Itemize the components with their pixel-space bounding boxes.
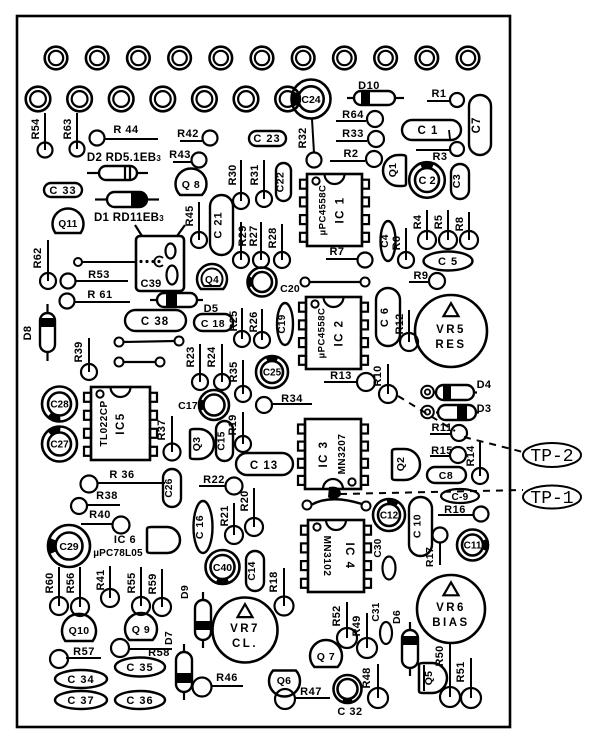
- svg-text:C7: C7: [471, 117, 483, 134]
- svg-text:C 32: C 32: [337, 706, 362, 718]
- svg-text:R12: R12: [394, 313, 406, 334]
- svg-text:MN3102: MN3102: [321, 536, 332, 577]
- svg-text:C 34: C 34: [67, 674, 94, 686]
- svg-text:Q4: Q4: [205, 275, 219, 286]
- capacitor C3: [451, 164, 469, 199]
- resistor R10: [372, 364, 397, 403]
- resistor R54: [30, 113, 53, 158]
- capacitor C34: [55, 670, 107, 688]
- svg-text:R24: R24: [206, 346, 218, 368]
- transistor Q3: [190, 429, 214, 459]
- svg-text:IC 4: IC 4: [343, 542, 355, 569]
- resistor R7: [326, 246, 373, 268]
- capacitor C14: [246, 551, 264, 591]
- capacitor C4: [380, 221, 396, 261]
- pad row top (11 plated holes): [45, 47, 480, 70]
- capacitor C29: [48, 525, 90, 567]
- svg-text:R9: R9: [413, 270, 428, 282]
- transistor Q7: [310, 640, 342, 667]
- diode D9: [179, 585, 211, 648]
- capacitor C7: [469, 95, 491, 155]
- capacitor C40: [206, 550, 240, 584]
- svg-text:C 1: C 1: [418, 125, 439, 137]
- svg-text:C17: C17: [178, 400, 198, 412]
- svg-text:R 36: R 36: [109, 469, 134, 481]
- resistor R5: [433, 210, 457, 249]
- wire left pair lower: [115, 358, 165, 367]
- svg-text:C39: C39: [140, 278, 161, 290]
- resistor R23: [185, 344, 208, 390]
- transistor Q5: [419, 663, 447, 693]
- svg-text:C 13: C 13: [250, 460, 278, 472]
- wire under IC3: [303, 499, 371, 510]
- capacitor C6: [376, 288, 400, 346]
- clock IC4 MN3102: [301, 520, 371, 592]
- diode D3: [421, 403, 491, 420]
- svg-text:D1 RD11EB3: D1 RD11EB3: [94, 212, 164, 224]
- svg-text:R49: R49: [351, 615, 363, 636]
- svg-text:R32: R32: [297, 127, 309, 148]
- svg-text:C 35: C 35: [126, 662, 153, 674]
- svg-text:R17: R17: [424, 547, 436, 567]
- resistor R17: [424, 528, 448, 568]
- svg-text:BIAS: BIAS: [432, 617, 469, 629]
- svg-text:D2 RD5.1EB3: D2 RD5.1EB3: [87, 152, 161, 164]
- diode D2 RD5.1EB3: [87, 152, 161, 180]
- svg-text:Q11: Q11: [58, 219, 77, 230]
- svg-text:C30: C30: [373, 538, 384, 557]
- resistor R8: [454, 212, 478, 249]
- resistor R32: [297, 119, 322, 168]
- wire to C39: [74, 258, 136, 266]
- capacitor C38: [125, 310, 186, 331]
- svg-text:C 18: C 18: [201, 318, 225, 330]
- resistor R60: [44, 567, 68, 615]
- svg-text:R30: R30: [227, 164, 239, 185]
- svg-text:Q2: Q2: [395, 457, 407, 472]
- svg-text:R25: R25: [228, 310, 240, 331]
- resistor R45: [184, 202, 207, 248]
- wire left pair upper: [115, 337, 184, 347]
- svg-text:C 21: C 21: [213, 211, 225, 238]
- svg-text:IC 3: IC 3: [318, 440, 330, 467]
- svg-text:VR6: VR6: [436, 602, 466, 614]
- resistor R9: [409, 270, 445, 289]
- svg-text:C31: C31: [371, 602, 382, 621]
- svg-text:R55: R55: [126, 572, 138, 593]
- resistor R58: [111, 639, 172, 659]
- svg-text:TP-1: TP-1: [530, 489, 573, 509]
- transistor Q8: [176, 168, 207, 195]
- svg-text:D8: D8: [22, 326, 34, 341]
- transistor Q1: [383, 155, 406, 186]
- svg-text:C19: C19: [277, 314, 288, 333]
- resistor R1: [427, 88, 464, 107]
- svg-text:R 61: R 61: [87, 289, 112, 301]
- capacitor C25: [256, 356, 288, 388]
- resistor R12: [394, 310, 418, 351]
- svg-text:C20: C20: [280, 283, 300, 295]
- resistor R35: [228, 360, 251, 402]
- trimmer capacitor C39: [135, 225, 185, 291]
- resistor R25: [228, 308, 250, 347]
- resistor R51: [455, 658, 481, 708]
- resistor R46: [193, 672, 244, 697]
- resistor R30: [227, 160, 249, 209]
- diode D1 RD11EB3: [94, 192, 164, 224]
- svg-text:R39: R39: [73, 341, 85, 362]
- svg-text:C 37: C 37: [67, 695, 94, 707]
- potentiometer VR5: [415, 295, 487, 367]
- svg-text:RES: RES: [435, 339, 466, 351]
- diode D6: [391, 610, 418, 676]
- diode D4: [421, 379, 492, 400]
- svg-text:R42: R42: [177, 128, 199, 140]
- capacitor C18: [194, 314, 233, 331]
- svg-text:C28: C28: [50, 400, 69, 411]
- resistor R64: [336, 109, 383, 127]
- resistor R15: [430, 445, 466, 463]
- svg-text:R62: R62: [32, 247, 44, 268]
- svg-text:µPC78L05: µPC78L05: [93, 548, 143, 559]
- svg-text:R3: R3: [432, 151, 447, 163]
- svg-text:R21: R21: [219, 505, 231, 526]
- capacitor C31: [371, 602, 392, 644]
- svg-text:R1: R1: [431, 88, 446, 100]
- svg-text:R45: R45: [184, 205, 196, 226]
- svg-text:IC 1: IC 1: [335, 196, 347, 223]
- capacitor C2: [409, 162, 445, 198]
- svg-text:R51: R51: [455, 661, 467, 682]
- svg-text:C15: C15: [217, 431, 228, 450]
- svg-text:R 44: R 44: [113, 124, 139, 136]
- svg-text:R7: R7: [329, 246, 344, 258]
- capacitor C37: [55, 691, 107, 709]
- svg-text:R43: R43: [169, 149, 191, 161]
- capacitor C13: [236, 453, 293, 475]
- svg-text:C24: C24: [301, 94, 320, 106]
- svg-text:VR5: VR5: [436, 324, 466, 336]
- resistor R4: [412, 210, 436, 249]
- resistor R18: [268, 568, 294, 616]
- resistor R44: [90, 124, 159, 146]
- pad row second (7 plated holes): [26, 87, 300, 112]
- IC3 notch blob: [328, 487, 341, 500]
- op-amp IC5 TL022CP: [84, 387, 157, 460]
- capacitor C30: [373, 538, 396, 579]
- test point TP-2 callout: [398, 396, 581, 467]
- svg-text:R53: R53: [88, 269, 110, 281]
- BBD IC3 MN3207: [298, 419, 368, 489]
- resistor R14: [465, 442, 488, 484]
- svg-text:R60: R60: [44, 572, 56, 593]
- svg-text:C 6: C 6: [379, 307, 391, 327]
- resistor R43: [169, 149, 206, 168]
- diode D7: [163, 631, 192, 700]
- resistor R41: [95, 566, 119, 607]
- resistor R62: [32, 240, 56, 289]
- capacitor C32: [334, 675, 362, 703]
- svg-text:R14: R14: [465, 445, 477, 467]
- svg-text:Q 7: Q 7: [317, 651, 335, 663]
- svg-text:C 16: C 16: [194, 515, 206, 539]
- svg-text:C 23: C 23: [253, 133, 280, 145]
- svg-text:C25: C25: [263, 368, 282, 379]
- svg-text:R23: R23: [185, 346, 197, 367]
- capacitor C5: [424, 252, 473, 271]
- resistor R39: [73, 338, 97, 380]
- svg-text:R22: R22: [203, 474, 225, 486]
- svg-text:R31: R31: [249, 164, 261, 185]
- resistor R2: [330, 148, 382, 167]
- resistor R55: [126, 567, 150, 615]
- resistor R3: [416, 142, 464, 163]
- transistor Q10: [62, 614, 96, 641]
- capacitor C-9: [441, 489, 479, 503]
- capacitor C19: [277, 303, 293, 345]
- resistor R61: [60, 289, 131, 309]
- svg-text:Q10: Q10: [69, 625, 90, 637]
- svg-text:CL.: CL.: [232, 638, 258, 650]
- svg-text:R41: R41: [95, 569, 107, 590]
- svg-text:R40: R40: [89, 509, 111, 521]
- svg-text:Q5: Q5: [423, 671, 435, 686]
- resistor R48: [361, 664, 388, 708]
- svg-text:Q3: Q3: [191, 437, 203, 452]
- svg-text:C-9: C-9: [451, 492, 468, 503]
- svg-text:R38: R38: [96, 490, 118, 502]
- svg-text:Q 9: Q 9: [132, 624, 150, 636]
- diode D10: [347, 80, 404, 105]
- svg-text:Q 8: Q 8: [182, 179, 200, 191]
- diode D8: [22, 304, 55, 361]
- svg-text:R35: R35: [228, 361, 240, 382]
- op-amp IC1 uPC4558C: [300, 174, 369, 246]
- resistor R22: [199, 474, 243, 495]
- resistor R49: [351, 613, 377, 658]
- potentiometer VR7: [213, 598, 278, 663]
- resistor R47: [275, 686, 330, 709]
- resistor R33: [336, 128, 384, 147]
- svg-text:C 10: C 10: [412, 514, 424, 538]
- svg-text:C 36: C 36: [126, 695, 153, 707]
- resistor R38: [71, 490, 120, 514]
- potentiometer VR6: [417, 575, 485, 643]
- capacitor C35: [115, 658, 165, 677]
- resistor R56: [65, 567, 89, 616]
- capacitor C33: [44, 183, 82, 197]
- op-amp IC2 uPC4558C: [299, 297, 368, 369]
- svg-text:Q1: Q1: [387, 163, 399, 178]
- svg-text:C27: C27: [50, 440, 69, 451]
- svg-text:TP-2: TP-2: [530, 447, 573, 467]
- resistor R53: [61, 269, 129, 289]
- capacitor C21: [210, 195, 233, 255]
- resistor R52: [331, 602, 357, 648]
- resistor R59: [147, 569, 171, 616]
- svg-text:C 5: C 5: [438, 256, 458, 268]
- svg-text:VR7: VR7: [230, 623, 260, 635]
- resistor R34: [256, 393, 312, 413]
- resistor R63: [62, 113, 85, 157]
- resistor R40: [81, 509, 130, 534]
- capacitor C28: [42, 387, 77, 422]
- capacitor C23: [249, 131, 286, 146]
- svg-text:R5: R5: [433, 215, 445, 230]
- svg-text:Q6: Q6: [277, 675, 292, 687]
- resistor R36: [81, 469, 166, 493]
- capacitor C36: [115, 691, 165, 709]
- svg-text:R26: R26: [248, 311, 260, 332]
- svg-text:µPC4558C: µPC4558C: [318, 185, 329, 236]
- capacitor C20: [248, 268, 277, 297]
- resistor R20: [239, 488, 263, 536]
- resistor R13: [324, 370, 375, 391]
- svg-text:R4: R4: [412, 214, 424, 229]
- svg-text:R59: R59: [147, 573, 159, 594]
- svg-text:C 38: C 38: [141, 316, 169, 328]
- capacitor C10: [409, 497, 432, 556]
- svg-text:R27: R27: [248, 225, 260, 246]
- capacitor C12: [373, 499, 405, 531]
- resistor R50: [434, 642, 460, 707]
- svg-text:R33: R33: [342, 128, 364, 140]
- resistor R21: [219, 503, 243, 544]
- svg-text:C11: C11: [464, 541, 482, 552]
- capacitor C22: [275, 163, 292, 201]
- resistor R28: [267, 224, 290, 268]
- svg-text:D9: D9: [179, 585, 191, 599]
- resistor R29: [233, 222, 249, 268]
- svg-text:R52: R52: [331, 605, 343, 626]
- capacitor C15: [216, 421, 233, 461]
- svg-text:µPC4558C: µPC4558C: [317, 308, 328, 359]
- svg-text:C26: C26: [164, 478, 175, 497]
- resistor R31: [249, 160, 272, 207]
- resistor R26: [248, 309, 270, 348]
- svg-text:C4: C4: [380, 234, 391, 248]
- resistor R57: [50, 646, 101, 668]
- svg-text:D6: D6: [391, 610, 403, 624]
- test point TP-1 callout: [340, 486, 581, 510]
- capacitor C26: [163, 469, 181, 507]
- resistor R6: [391, 228, 414, 268]
- svg-text:D7: D7: [163, 631, 175, 645]
- svg-text:R8: R8: [454, 217, 466, 232]
- svg-text:IC 2: IC 2: [334, 319, 346, 346]
- capacitor C27: [42, 427, 77, 462]
- capacitor C11: [457, 530, 488, 561]
- svg-text:R6: R6: [391, 236, 403, 251]
- resistor R37: [156, 416, 181, 461]
- transistor Q6: [269, 671, 300, 697]
- svg-text:R54: R54: [30, 118, 42, 140]
- svg-text:C40: C40: [213, 562, 232, 574]
- transistor Q9: [125, 613, 157, 640]
- capacitor C24: [292, 80, 331, 119]
- resistor R11: [430, 422, 467, 441]
- board outline frame: [17, 16, 510, 727]
- svg-text:TL022CP: TL022CP: [99, 400, 110, 446]
- svg-text:C3: C3: [451, 174, 463, 188]
- svg-text:D4: D4: [477, 379, 492, 391]
- svg-text:C8: C8: [439, 470, 453, 482]
- regulator IC6 uPC78L05: [93, 527, 180, 559]
- resistor R16: [438, 504, 489, 522]
- svg-text:R56: R56: [65, 572, 77, 593]
- svg-text:C14: C14: [247, 561, 258, 580]
- svg-text:R18: R18: [268, 571, 280, 592]
- svg-text:R28: R28: [267, 227, 279, 248]
- svg-text:C 2: C 2: [418, 175, 435, 187]
- diode D5: [150, 293, 218, 315]
- svg-text:C22: C22: [275, 172, 287, 193]
- svg-text:R48: R48: [361, 667, 373, 688]
- svg-text:R63: R63: [62, 118, 74, 139]
- transistor Q11: [52, 208, 83, 233]
- svg-text:C29: C29: [59, 541, 78, 553]
- svg-text:R46: R46: [216, 672, 238, 684]
- transistor Q2: [392, 449, 420, 480]
- svg-text:R57: R57: [73, 646, 95, 658]
- wire IC1-IC2: [301, 278, 370, 287]
- transistor Q4: [197, 264, 227, 289]
- capacitor C16: [194, 501, 213, 553]
- svg-text:R64: R64: [342, 109, 364, 121]
- svg-text:R47: R47: [300, 686, 322, 698]
- resistor R19: [227, 412, 251, 452]
- resistor R27: [248, 222, 269, 268]
- svg-text:C 33: C 33: [49, 185, 76, 197]
- capacitor C17: [199, 390, 229, 420]
- svg-text:R20: R20: [239, 490, 251, 511]
- svg-text:C12: C12: [380, 511, 399, 522]
- svg-text:R2: R2: [343, 148, 358, 160]
- svg-text:R37: R37: [156, 419, 168, 440]
- capacitor C8: [427, 467, 466, 483]
- resistor R42: [177, 128, 217, 146]
- svg-text:MN3207: MN3207: [337, 434, 348, 475]
- resistor R24: [206, 344, 230, 390]
- svg-text:IC5: IC5: [115, 412, 127, 434]
- svg-text:R50: R50: [434, 645, 446, 666]
- capacitor C1: [402, 120, 461, 140]
- svg-text:R13: R13: [330, 370, 352, 382]
- svg-text:R19: R19: [227, 414, 239, 435]
- svg-text:IC 6: IC 6: [114, 534, 136, 546]
